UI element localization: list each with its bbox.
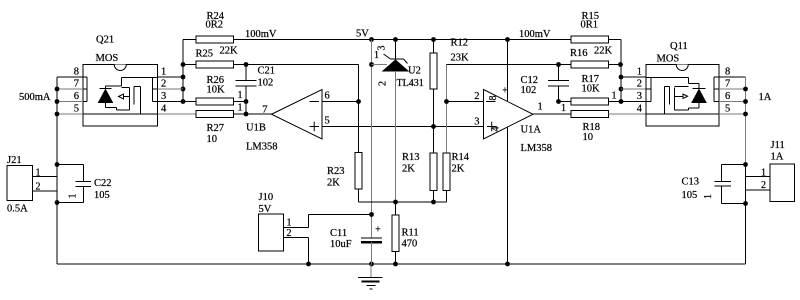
- Q11 arrow to gate: [675, 95, 684, 97]
- wire R11 bottom lead: [395, 252, 397, 265]
- Q11 MOSFET channel left leg: [664, 87, 666, 115]
- Q11 inner source row: [646, 113, 719, 115]
- svg-text:100mV: 100mV: [519, 29, 551, 40]
- wire R25 to sense vertical: [234, 64, 359, 66]
- wire bus to R25: [183, 64, 196, 66]
- junction U1B pin6 tap: [356, 99, 361, 104]
- wire TL431 anode down: [395, 71, 397, 202]
- Q21 pin2 stub: [153, 88, 158, 90]
- svg-text:R25: R25: [196, 49, 214, 60]
- wire bus to R26: [183, 101, 196, 103]
- connector J11: [770, 164, 795, 202]
- resistor R11: [392, 215, 399, 252]
- junction C13 top: [743, 162, 748, 167]
- Q21 MOSFET gate plate: [129, 88, 131, 111]
- svg-text:2: 2: [474, 91, 479, 102]
- svg-text:22K: 22K: [220, 46, 239, 57]
- wire C13 bottom lead: [721, 186, 723, 204]
- svg-text:2: 2: [161, 79, 166, 90]
- junction R11 bottom: [393, 262, 398, 267]
- svg-text:5V: 5V: [259, 204, 272, 215]
- svg-text:7: 7: [262, 105, 267, 116]
- wire J11 pin1: [746, 176, 771, 178]
- wire C12 top lead: [558, 65, 560, 81]
- capacitor C12 bottom plate: [548, 85, 569, 87]
- Q11 LED-side inner vertical: [713, 77, 715, 102]
- svg-text:470: 470: [402, 239, 418, 250]
- wire Q11 pin7 row: [719, 88, 746, 90]
- Q11 gate top wire: [675, 86, 689, 88]
- junction C21/R27/pin7: [244, 112, 249, 117]
- svg-text:R23: R23: [327, 166, 345, 177]
- svg-text:J10: J10: [259, 192, 274, 203]
- svg-text:R27: R27: [207, 123, 225, 134]
- junction U1A V+ on top rail: [505, 37, 510, 42]
- junction C21 top: [244, 62, 249, 67]
- ground stem: [370, 264, 372, 278]
- resistor R13: [430, 153, 437, 191]
- wire Q21 pin4 to R27: [158, 113, 197, 115]
- junction R13 bottom: [431, 200, 436, 205]
- capacitor C22 bottom plate: [76, 186, 92, 188]
- wire Q21 pin1 row: [158, 76, 184, 78]
- Q11 LED bottom lead: [698, 103, 700, 109]
- svg-text:1: 1: [238, 90, 243, 101]
- junction R16 on right bus: [618, 62, 623, 67]
- Q21 LED top wire right: [106, 85, 122, 87]
- wire C22 top lead: [82, 165, 84, 182]
- svg-text:C21: C21: [258, 66, 276, 77]
- Q21 LED triangle: [99, 90, 113, 103]
- svg-text:+: +: [375, 225, 381, 236]
- junction R11 top: [393, 200, 398, 205]
- Q11 inner vertical to top line: [688, 78, 690, 84]
- wire top rail from left bus to R24: [183, 39, 196, 41]
- svg-text:0R2: 0R2: [206, 20, 224, 31]
- resistor R27: [196, 111, 234, 118]
- wire Q21 pin7 row: [57, 88, 83, 90]
- resistor R24: [196, 36, 234, 43]
- wire J10 pin1: [284, 227, 309, 229]
- svg-text:1: 1: [612, 91, 617, 102]
- wire TL431 cathode lead: [395, 40, 397, 60]
- wire R14 vertical: [446, 65, 448, 154]
- wire R14 bottom lead: [446, 191, 448, 203]
- Q21 inner vertical to top line: [121, 78, 123, 87]
- svg-text:LM358: LM358: [246, 142, 278, 153]
- Q11 MOSFET channel right leg short: [669, 87, 671, 105]
- Q11 MOSFET gate plate: [674, 88, 676, 111]
- wire C12 bottom lead: [558, 86, 560, 102]
- Q21 photo arrow: [119, 94, 124, 99]
- U1B minus sign: [310, 101, 320, 103]
- Q21 MOSFET channel left leg: [133, 87, 135, 105]
- wire C21 bottom lead down: [245, 86, 247, 114]
- junction TL431 ref: [369, 62, 374, 67]
- connector J21: [7, 166, 33, 201]
- svg-text:5: 5: [725, 104, 730, 115]
- svg-text:LM358: LM358: [521, 143, 553, 154]
- svg-text:1: 1: [68, 194, 79, 199]
- Q11 gate bottom wire: [675, 109, 689, 111]
- svg-text:C22: C22: [94, 178, 112, 189]
- svg-text:C13: C13: [682, 177, 700, 188]
- resistor R12: [430, 53, 437, 89]
- junction C21/R26: [244, 99, 249, 104]
- svg-text:2K: 2K: [452, 164, 465, 175]
- svg-text:1: 1: [36, 168, 41, 179]
- wire C12 to R16: [559, 64, 572, 66]
- Q11 pin7 inner stub: [714, 88, 719, 90]
- svg-text:0R1: 0R1: [581, 20, 599, 31]
- wire Q21 pin2 row: [158, 88, 184, 90]
- junction C22 bottom: [55, 200, 60, 205]
- junction bus pin5: [55, 112, 60, 117]
- svg-text:6: 6: [74, 91, 79, 102]
- Q11 pin8 inner stub: [714, 76, 719, 78]
- wire pin5 to pin3 row: [322, 126, 484, 128]
- U1B plus sign v: [313, 122, 315, 132]
- wire sense vertical down to R23: [358, 65, 360, 153]
- U1A plus sign v: [491, 122, 493, 132]
- resistor R17: [571, 98, 609, 105]
- junction bus pin6: [55, 99, 60, 104]
- Q21 gate top wire: [122, 87, 130, 89]
- Q21 LED bottom wire: [106, 107, 117, 109]
- resistor R16: [571, 61, 609, 68]
- Q21 gate bottom wire: [117, 109, 130, 111]
- resistor R18: [571, 111, 609, 118]
- wire Q21 pin3 row: [158, 101, 184, 103]
- wire C21 top lead: [245, 65, 247, 81]
- svg-text:4: 4: [637, 104, 643, 115]
- Q21 MOSFET channel top: [134, 86, 141, 88]
- capacitor C21 bottom plate: [236, 85, 257, 87]
- wire left outer bus: [56, 77, 58, 264]
- svg-text:7: 7: [74, 79, 79, 90]
- Q21 LED cathode bar: [100, 88, 112, 90]
- TL431 bar left tick: [384, 54, 391, 59]
- TL431 triangle: [383, 60, 408, 71]
- junction R25 on bus: [181, 62, 186, 67]
- svg-text:R11: R11: [402, 228, 419, 239]
- connector J10: [259, 214, 284, 251]
- Q21 inner source row to pin4: [83, 113, 158, 115]
- svg-text:R12: R12: [451, 38, 469, 49]
- wire R27 to U1B output: [234, 113, 272, 115]
- Q11 MOSFET channel top: [665, 86, 670, 88]
- svg-text:6: 6: [725, 91, 730, 102]
- capacitor C13 bottom plate: [715, 185, 732, 187]
- wire Q11 pin5 row: [719, 113, 746, 115]
- svg-text:MOS: MOS: [96, 53, 119, 64]
- Q21 inner bottom vertical: [116, 108, 118, 111]
- op-amp U1A: [484, 90, 534, 140]
- wire J10 pin1 to 5V vertical: [309, 214, 372, 216]
- U1A minus sign: [486, 101, 496, 103]
- Q11 LED cathode bar: [693, 88, 706, 90]
- svg-text:1: 1: [703, 194, 714, 199]
- svg-text:1: 1: [287, 218, 292, 229]
- wire TL431 ref pin1: [372, 64, 388, 66]
- svg-text:1: 1: [374, 50, 379, 61]
- Q11 inner left vertical: [650, 78, 652, 102]
- svg-text:MOS: MOS: [657, 54, 680, 65]
- wire Q11 pin8 row: [719, 76, 746, 78]
- wire right inner bus: [620, 40, 622, 102]
- TL431 bar right tick: [404, 59, 408, 64]
- wire R13 bottom lead: [433, 191, 435, 203]
- resistor R25: [196, 61, 234, 68]
- junction R12 on top rail: [431, 37, 436, 42]
- Q11 pin2 stub: [646, 88, 651, 90]
- svg-text:23K: 23K: [451, 53, 470, 64]
- junction U1A V-: [505, 262, 510, 267]
- svg-text:0.5A: 0.5A: [7, 204, 28, 215]
- wire U1A pin2: [447, 101, 484, 103]
- Q21 arrow to gate: [124, 96, 130, 98]
- wire R12 to R13: [433, 89, 435, 153]
- junction pin2 right: [619, 87, 624, 92]
- capacitor C12 top plate: [548, 80, 569, 82]
- junction J10 pin1 / C11: [369, 212, 374, 217]
- ground bar 2: [362, 281, 380, 283]
- Q21 notch: [114, 65, 126, 71]
- wire C13 bottom branch: [722, 203, 746, 205]
- Q11 LED top lead: [698, 84, 700, 89]
- svg-text:3: 3: [474, 117, 479, 128]
- Q21 inner right vertical: [152, 78, 154, 102]
- svg-text:2: 2: [761, 180, 766, 191]
- wire bus to Q11 pin2: [621, 88, 646, 90]
- Q11 photo arrow: [683, 94, 688, 99]
- svg-text:10K: 10K: [207, 85, 226, 96]
- wire C22 top branch: [57, 164, 83, 166]
- junction pin3 right: [619, 99, 624, 104]
- svg-text:5: 5: [325, 116, 330, 127]
- svg-text:102: 102: [258, 78, 274, 89]
- U1B plus sign h: [310, 126, 320, 128]
- capacitor C21 top plate: [236, 80, 257, 82]
- capacitor C11 bottom plate: [361, 241, 382, 244]
- svg-text:1: 1: [761, 168, 766, 179]
- wire C11 bottom lead: [371, 242, 373, 264]
- svg-text:4: 4: [491, 127, 502, 132]
- svg-text:102: 102: [521, 85, 537, 96]
- svg-text:1: 1: [637, 67, 642, 78]
- wire top rail R24 to R15: [234, 39, 572, 41]
- svg-text:R14: R14: [452, 152, 470, 163]
- svg-text:5: 5: [74, 104, 79, 115]
- svg-text:U2: U2: [408, 66, 421, 77]
- wire Q21 pin6 row: [57, 101, 83, 103]
- svg-text:+: +: [502, 86, 508, 97]
- svg-text:J11: J11: [771, 140, 785, 151]
- resistor R26: [196, 98, 234, 105]
- wire J10 pin2 down: [308, 238, 310, 265]
- wire R16 to right bus: [609, 64, 622, 66]
- Q11 LED triangle: [692, 90, 706, 103]
- svg-text:2: 2: [637, 79, 642, 90]
- junction pin3: [181, 99, 186, 104]
- wire bus to Q11 pin1: [621, 76, 646, 78]
- junction C11/ground: [369, 262, 374, 267]
- svg-text:105: 105: [682, 190, 698, 201]
- svg-text:1: 1: [238, 102, 243, 113]
- svg-text:U1B: U1B: [246, 123, 266, 134]
- wire left inner bus vertical: [182, 40, 184, 102]
- wire C22 bottom lead: [82, 187, 84, 203]
- transistor Q11 MOS optocoupler package: [646, 65, 719, 127]
- svg-text:1: 1: [561, 103, 566, 114]
- wire U1B pin6 to sense vertical: [322, 101, 359, 103]
- Q21 pin7 inner stub: [83, 88, 87, 90]
- svg-text:J21: J21: [7, 155, 22, 166]
- Q11 LED top wire: [689, 83, 700, 85]
- svg-text:R13: R13: [402, 152, 420, 163]
- svg-text:8: 8: [488, 96, 499, 101]
- junction C12/R17: [556, 99, 561, 104]
- svg-text:U1A: U1A: [521, 125, 542, 136]
- Q11 pin3 stub: [646, 101, 651, 103]
- ground bar 1: [358, 277, 383, 279]
- svg-text:10: 10: [583, 132, 594, 143]
- svg-text:2: 2: [287, 228, 292, 239]
- TL431 cathode bar: [391, 58, 404, 60]
- svg-text:4: 4: [161, 104, 167, 115]
- junction C12 top: [556, 62, 561, 67]
- wire R23 bottom lead: [358, 189, 360, 202]
- resistor R14: [443, 153, 450, 191]
- Q21 pin8 inner stub: [83, 76, 87, 78]
- ground bar 3: [367, 285, 376, 287]
- svg-text:1: 1: [161, 67, 166, 78]
- svg-text:2: 2: [36, 182, 41, 193]
- svg-text:R16: R16: [570, 48, 588, 59]
- transistor Q21 MOS optocoupler package: [83, 65, 158, 127]
- Q21 pin6 inner stub: [83, 101, 87, 103]
- svg-text:8: 8: [725, 67, 730, 78]
- Q21 MOSFET channel right leg: [140, 87, 142, 115]
- wire J10 pin1 up: [308, 215, 310, 228]
- wire right outer bus upper: [745, 77, 747, 165]
- svg-text:10: 10: [207, 134, 218, 145]
- wire R15 to right bus corner: [609, 39, 622, 41]
- wire R18 to Q11 pin4: [609, 113, 647, 115]
- wire C12 to R17: [559, 101, 572, 103]
- wire R14 top to C12: [447, 64, 559, 66]
- capacitor C22 top plate: [76, 181, 92, 183]
- wire Q21 pin5 row: [57, 113, 83, 115]
- capacitor C11 top plate: [361, 237, 382, 239]
- svg-text:3: 3: [161, 91, 166, 102]
- svg-text:2K: 2K: [402, 164, 415, 175]
- Q21 pin3 stub: [153, 101, 158, 103]
- wire R17 to Q11 pin3: [609, 101, 647, 103]
- svg-text:22K: 22K: [594, 46, 613, 57]
- svg-text:500mA: 500mA: [19, 92, 51, 103]
- svg-text:3: 3: [637, 91, 642, 102]
- junction C22 top: [55, 162, 60, 167]
- svg-text:1A: 1A: [759, 92, 772, 103]
- wire R12 top lead: [433, 40, 435, 54]
- resistor R15: [571, 36, 609, 43]
- ground bar 4: [370, 288, 373, 290]
- wire C13 top lead: [721, 165, 723, 182]
- svg-text:10uF: 10uF: [330, 239, 352, 250]
- svg-text:2K: 2K: [327, 178, 340, 189]
- wire right outer bus lower: [745, 165, 747, 265]
- svg-text:2: 2: [378, 81, 389, 86]
- wire Q21 pin8 row: [57, 76, 83, 78]
- svg-text:TL431: TL431: [397, 78, 424, 89]
- junction R12/R13 midpoint: [431, 124, 436, 129]
- junction 5V vertical on top rail: [369, 37, 374, 42]
- svg-text:3: 3: [377, 46, 388, 51]
- junction TL431 cathode on top rail: [393, 37, 398, 42]
- junction C13 bottom: [743, 201, 748, 206]
- svg-text:105: 105: [94, 190, 110, 201]
- Q21 LED top lead: [105, 86, 107, 89]
- Q21 inner top line to pin1: [122, 77, 158, 79]
- op-amp U1B: [272, 90, 323, 140]
- wire C22 bottom branch: [57, 202, 83, 204]
- junction pin2: [181, 87, 186, 92]
- wire U1A V+ vertical: [507, 40, 509, 102]
- junction bus pin7: [55, 87, 60, 92]
- Q11 inner top line: [646, 77, 689, 79]
- svg-text:100mV: 100mV: [245, 29, 277, 40]
- svg-text:5V: 5V: [356, 29, 369, 40]
- junction J10 pin2: [306, 262, 311, 267]
- svg-text:7: 7: [725, 79, 730, 90]
- junction bus pin5 right: [743, 112, 748, 117]
- Q11 pin6 inner stub: [714, 101, 719, 103]
- svg-text:8: 8: [74, 67, 79, 78]
- svg-text:10K: 10K: [582, 84, 601, 95]
- wire mid rail: [359, 201, 447, 203]
- svg-text:Q21: Q21: [96, 35, 114, 46]
- svg-text:Q11: Q11: [670, 41, 688, 52]
- junction U1A pin2 tap: [444, 99, 449, 104]
- svg-text:C11: C11: [330, 228, 347, 239]
- svg-text:6: 6: [325, 91, 330, 102]
- wire U1A output to R18: [533, 113, 571, 115]
- wire R11 top lead: [395, 202, 397, 215]
- wire C13 top branch: [722, 164, 746, 166]
- svg-text:1: 1: [538, 102, 543, 113]
- wire 5V vertical: [371, 40, 373, 239]
- junction bus pin7 right: [743, 87, 748, 92]
- Q11 inner bottom vertical: [688, 108, 690, 110]
- wire J10 pin2: [284, 237, 309, 239]
- U1A plus sign h: [487, 126, 497, 128]
- wire J21 pin1: [33, 176, 58, 178]
- wire U1A V- vertical: [507, 128, 509, 265]
- junction pin1: [181, 75, 186, 80]
- Q21 LED-side inner vertical: [86, 77, 88, 102]
- wire R26 to C21 vertical: [234, 101, 247, 103]
- wire J11 pin2: [746, 189, 771, 191]
- svg-text:1A: 1A: [771, 152, 784, 163]
- Q21 LED bottom lead: [105, 103, 107, 108]
- capacitor C13 top plate: [715, 181, 732, 183]
- junction bus pin6 right: [743, 99, 748, 104]
- junction pin1 right: [619, 75, 624, 80]
- resistor R23: [355, 153, 362, 190]
- wire Q11 pin6 row: [719, 101, 746, 103]
- wire ground rail: [57, 263, 746, 265]
